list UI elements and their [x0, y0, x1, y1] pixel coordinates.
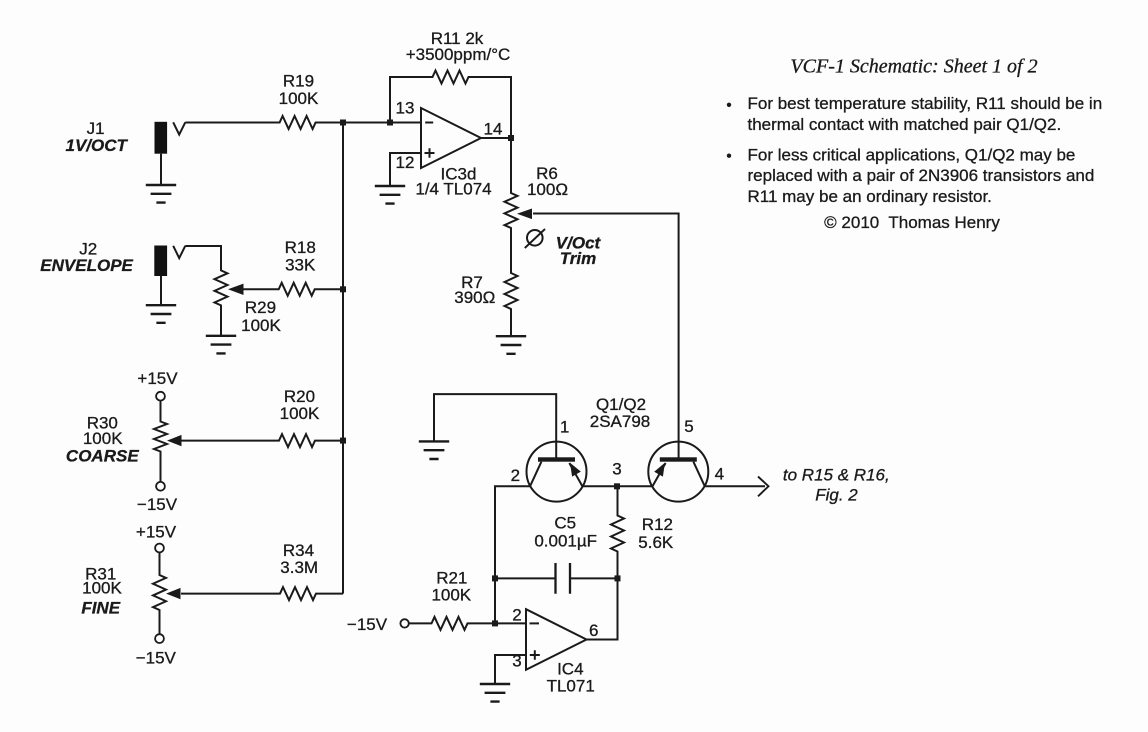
svg-text:100K: 100K [82, 579, 122, 598]
svg-text:C5: C5 [554, 514, 576, 533]
svg-text:1V/OCT: 1V/OCT [65, 136, 128, 155]
svg-text:ENVELOPE: ENVELOPE [40, 256, 133, 275]
svg-text:+15V: +15V [136, 523, 177, 542]
svg-text:1: 1 [560, 418, 569, 437]
svg-text:FINE: FINE [81, 599, 120, 618]
svg-text:−15V: −15V [137, 495, 178, 514]
svg-text:thermal contact with matched p: thermal contact with matched pair Q1/Q2. [748, 115, 1062, 134]
svg-text:R11 may be an ordinary resisto: R11 may be an ordinary resistor. [748, 187, 992, 206]
svg-text:4: 4 [715, 465, 724, 484]
svg-text:+15V: +15V [137, 369, 178, 388]
svg-text:390Ω: 390Ω [454, 288, 495, 307]
svg-text:13: 13 [396, 99, 415, 118]
svg-text:+3500ppm/°C: +3500ppm/°C [406, 45, 511, 64]
svg-text:5.6K: 5.6K [638, 533, 674, 552]
svg-text:12: 12 [396, 153, 415, 172]
svg-text:100K: 100K [241, 316, 281, 335]
svg-text:5: 5 [684, 417, 693, 436]
svg-text:100Ω: 100Ω [527, 180, 568, 199]
svg-text:© 2010 Thomas Henry: © 2010 Thomas Henry [824, 213, 1000, 232]
svg-text:3.3M: 3.3M [280, 558, 318, 577]
svg-text:Fig. 2: Fig. 2 [815, 485, 858, 504]
svg-text:R18: R18 [285, 238, 316, 257]
svg-text:1/4 TL074: 1/4 TL074 [415, 180, 491, 199]
svg-text:0.001µF: 0.001µF [534, 531, 597, 550]
svg-text:33K: 33K [285, 256, 316, 275]
svg-text:−15V: −15V [136, 649, 177, 668]
svg-text:2SA798: 2SA798 [590, 412, 651, 431]
svg-text:to R15 & R16,: to R15 & R16, [783, 465, 890, 484]
svg-text:2: 2 [512, 606, 521, 625]
svg-text:For less critical applications: For less critical applications, Q1/Q2 ma… [748, 145, 1076, 164]
svg-text:−15V: −15V [347, 615, 388, 634]
svg-text:Trim: Trim [560, 249, 597, 268]
svg-text:3: 3 [612, 460, 621, 479]
svg-text:replaced with a pair of 2N3906: replaced with a pair of 2N3906 transisto… [748, 166, 1095, 185]
svg-text:TL071: TL071 [547, 677, 595, 696]
svg-text:14: 14 [484, 120, 503, 139]
svg-text:2: 2 [511, 466, 520, 485]
svg-text:3: 3 [512, 652, 521, 671]
svg-text:R12: R12 [642, 515, 673, 534]
svg-text:100K: 100K [431, 586, 471, 605]
svg-text:VCF-1 Schematic: Sheet 1 of 2: VCF-1 Schematic: Sheet 1 of 2 [790, 56, 1037, 78]
svg-text:100K: 100K [280, 404, 320, 423]
svg-text:COARSE: COARSE [66, 446, 139, 465]
svg-text:R29: R29 [245, 298, 276, 317]
svg-text:For best temperature stability: For best temperature stability, R11 shou… [748, 94, 1103, 113]
svg-text:100K: 100K [279, 89, 319, 108]
svg-text:R19: R19 [283, 72, 314, 91]
svg-text:6: 6 [589, 621, 598, 640]
